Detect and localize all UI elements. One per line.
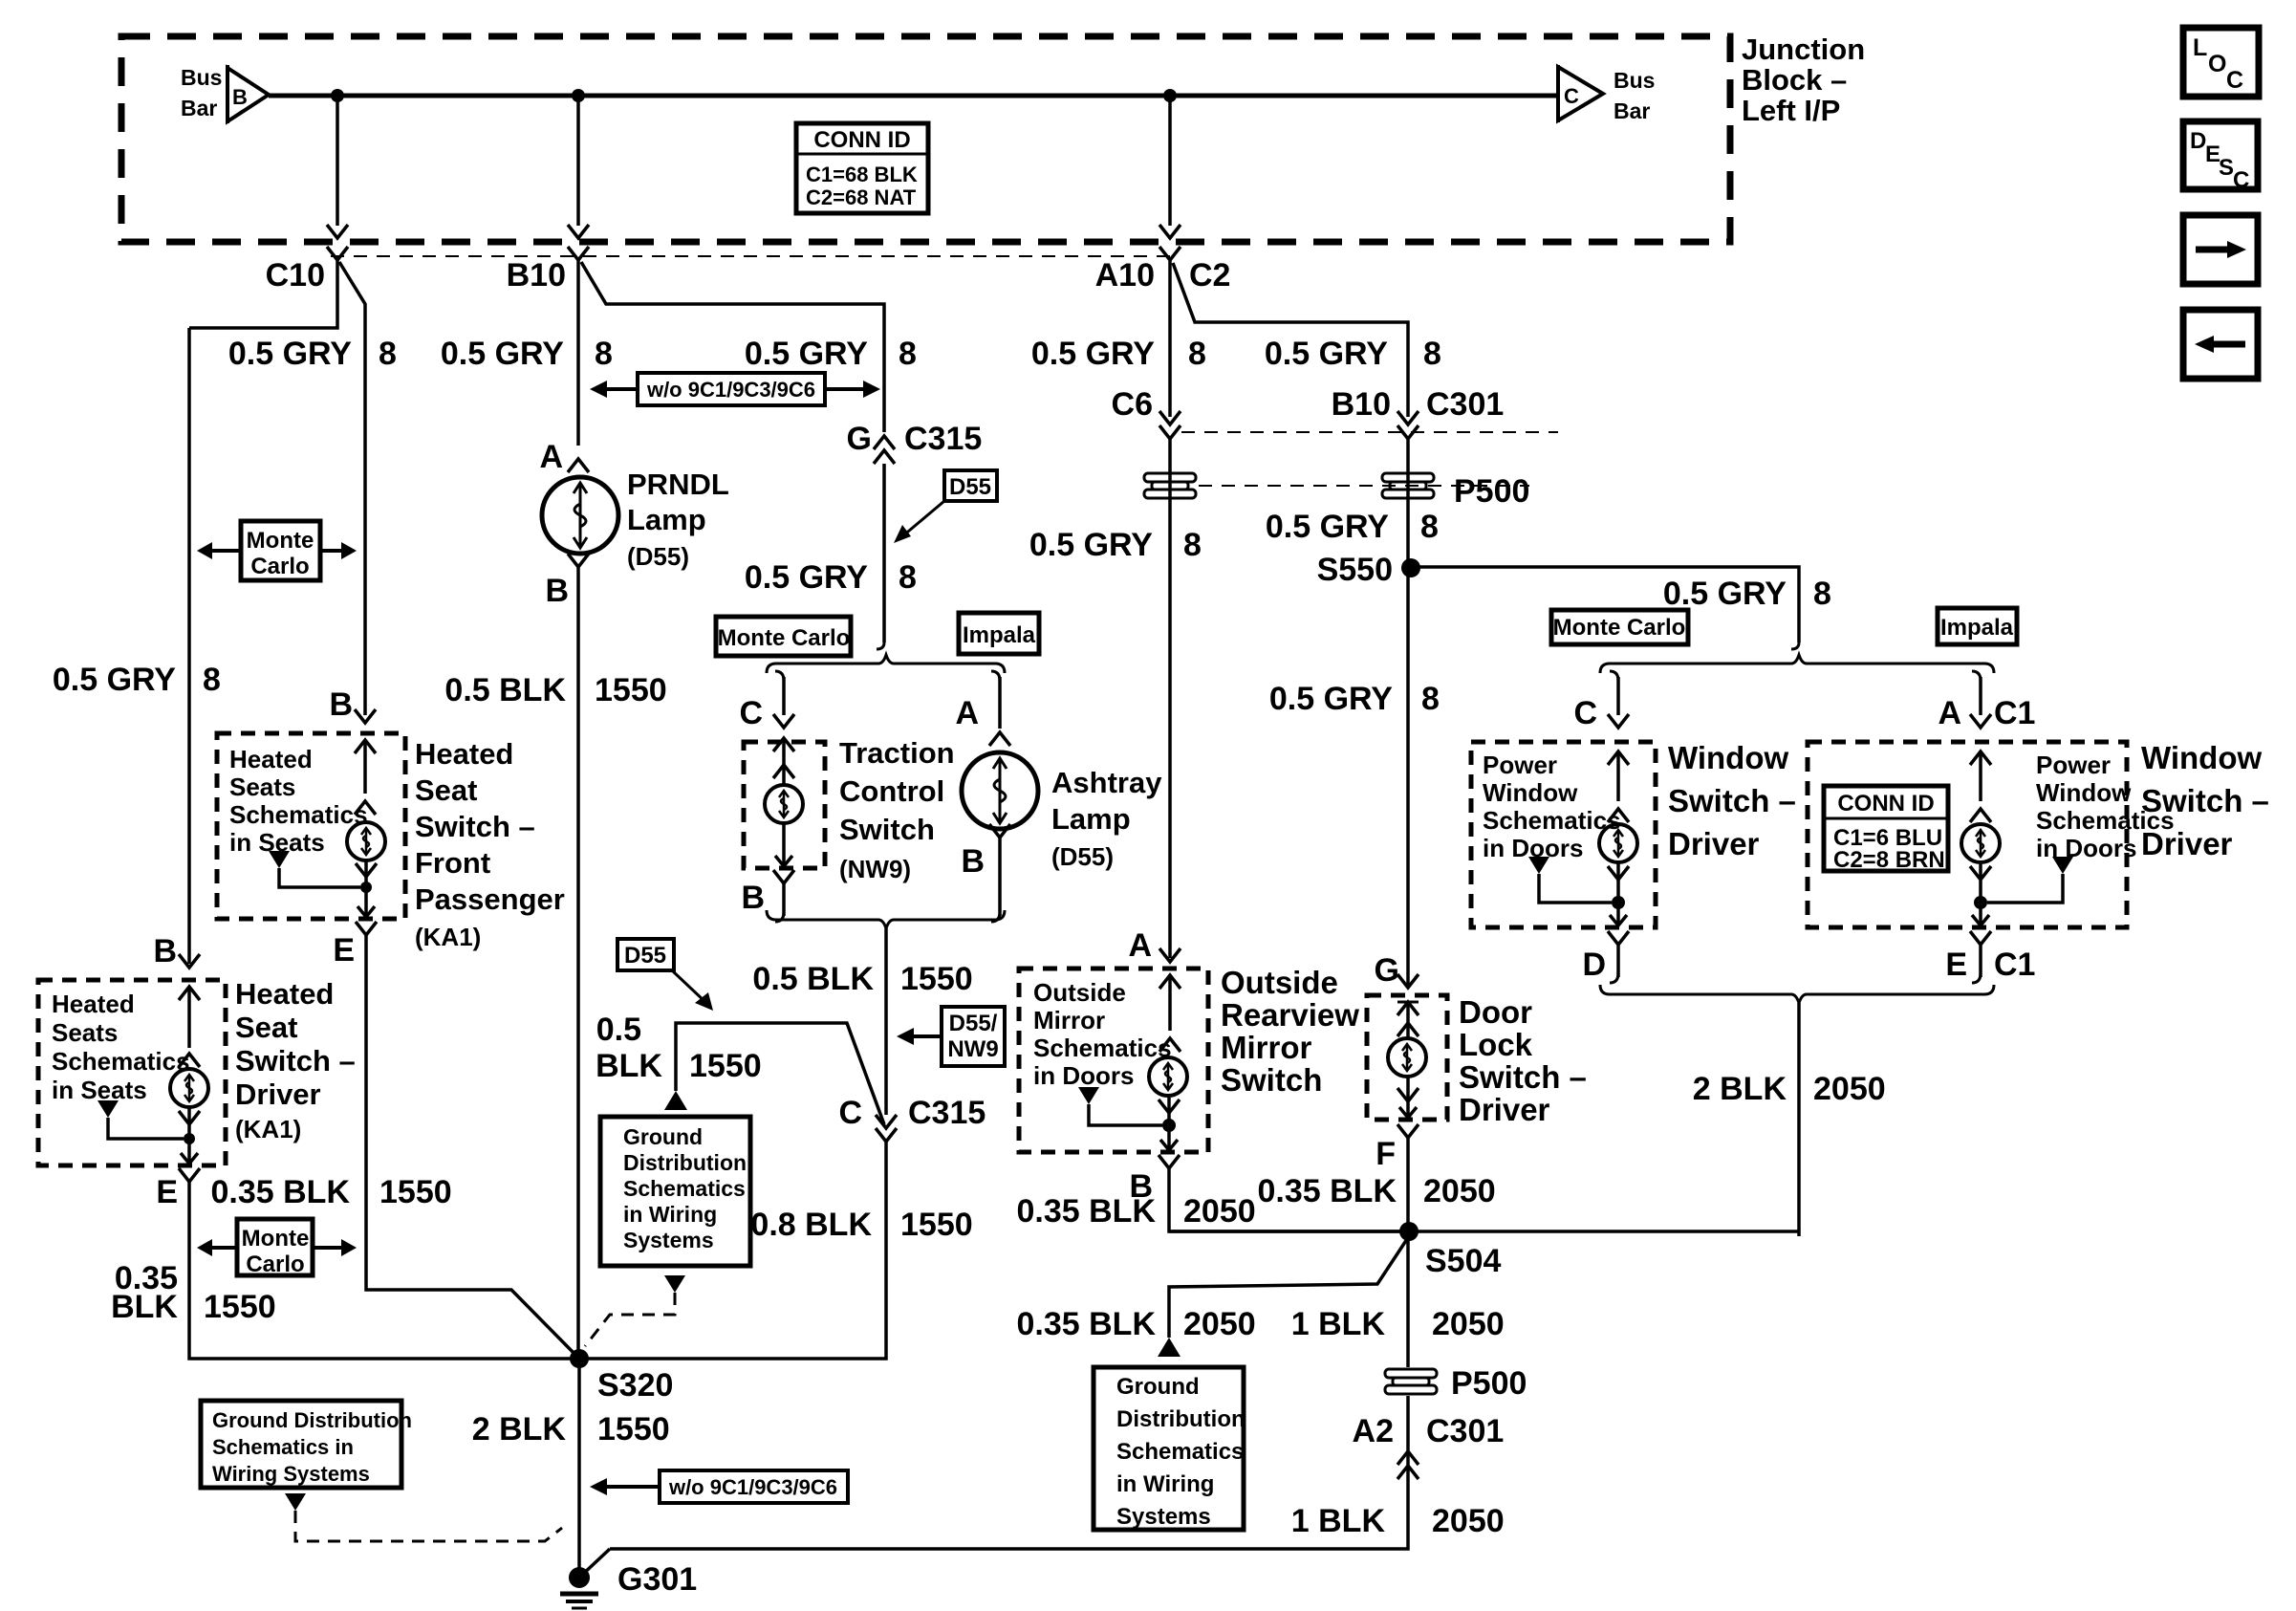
svg-text:Power: Power	[2036, 751, 2111, 779]
svg-text:BLK: BLK	[111, 1289, 178, 1325]
svg-text:0.5 GRY: 0.5 GRY	[745, 336, 868, 372]
svg-text:1 BLK: 1 BLK	[1291, 1306, 1386, 1342]
svg-text:C: C	[1564, 84, 1579, 108]
svg-text:C: C	[2226, 67, 2243, 94]
svg-text:0.35 BLK: 0.35 BLK	[1258, 1173, 1397, 1209]
alternates brace bottom (traction/ashtray)	[767, 910, 1005, 1115]
svg-text:Switch: Switch	[839, 813, 935, 846]
label 0.5 GRY 8 (P500 out)	[1266, 509, 1439, 545]
svg-text:S: S	[2219, 155, 2234, 181]
splice S550	[1317, 552, 1420, 588]
svg-text:B: B	[153, 933, 177, 969]
svg-text:in Wiring: in Wiring	[1116, 1471, 1214, 1497]
svg-text:2050: 2050	[1432, 1306, 1505, 1342]
terminal arrow (window MC top)	[1608, 751, 1629, 822]
door lock bulb	[1388, 1038, 1426, 1077]
PRNDL lamp (D55)	[542, 477, 618, 554]
traction control switch box	[744, 742, 825, 868]
connector C10	[266, 247, 348, 294]
heated seat driver title	[235, 977, 356, 1143]
svg-text:Control: Control	[839, 774, 944, 808]
ashtray lamp (D55)	[962, 752, 1038, 829]
label 0.35 BLK 1550 (driver)	[111, 1260, 276, 1325]
svg-text:Front: Front	[415, 846, 490, 880]
svg-text:Traction: Traction	[839, 736, 955, 770]
svg-text:Monte Carlo: Monte Carlo	[718, 625, 851, 651]
svg-text:C: C	[838, 1095, 862, 1131]
D55 ref box (upper)	[894, 470, 997, 543]
svg-text:Window: Window	[2141, 740, 2262, 775]
power window note (MC)	[1483, 751, 1621, 862]
svg-text:Junction: Junction	[1742, 33, 1865, 66]
svg-text:Impala: Impala	[963, 622, 1036, 648]
svg-text:1550: 1550	[900, 961, 973, 997]
svg-text:Door: Door	[1459, 994, 1532, 1030]
label 2 BLK 2050	[1693, 1071, 1886, 1107]
ref triangle + wire (window MC)	[1528, 857, 1625, 909]
svg-text:Heated: Heated	[415, 737, 513, 771]
right-arrow icon	[2183, 215, 2258, 284]
window MC bottom terminal	[1608, 862, 1629, 925]
label 0.5 GRY 8 (A10 rail)	[1031, 336, 1206, 372]
heated seats note (passenger)	[229, 745, 368, 857]
svg-text:D: D	[2190, 128, 2206, 154]
svg-text:A: A	[955, 695, 979, 731]
wire S504 down	[1406, 1231, 1410, 1367]
D55/NW9 ref box	[897, 1007, 1005, 1066]
svg-text:Switch –: Switch –	[235, 1044, 356, 1078]
ground G301	[560, 1561, 697, 1608]
svg-text:Schematics: Schematics	[52, 1047, 190, 1076]
wire S320 to G301	[577, 1359, 581, 1578]
svg-text:B10: B10	[1332, 386, 1391, 423]
svg-text:Impala: Impala	[1940, 615, 2014, 641]
heated seat driver bulb	[170, 1069, 208, 1107]
wire S504 diagonal to ground ref	[1169, 1236, 1409, 1338]
wire C2 diagonal to C301 branch	[1173, 263, 1408, 417]
svg-text:L: L	[2193, 34, 2207, 61]
stub A C1 (window Impala)	[1938, 671, 2035, 731]
wire C6 to P500	[1168, 439, 1172, 958]
svg-text:in Seats: in Seats	[52, 1076, 147, 1104]
svg-text:2 BLK: 2 BLK	[472, 1411, 567, 1448]
svg-text:1550: 1550	[597, 1411, 670, 1448]
terminal arrow (window Impala top)	[1970, 751, 1991, 822]
svg-text:Driver: Driver	[1459, 1092, 1550, 1127]
label 0.35 BLK 2050 (ground ref)	[1017, 1306, 1256, 1342]
svg-text:PRNDL: PRNDL	[627, 468, 729, 501]
svg-text:C1: C1	[1994, 695, 2035, 731]
label 0.5 GRY 8 (C315 lower)	[745, 559, 917, 596]
junction block label	[1742, 33, 1865, 127]
svg-text:8: 8	[1188, 336, 1206, 372]
label 0.35 BLK 2050 (F wire)	[1258, 1173, 1496, 1209]
svg-text:2 BLK: 2 BLK	[1693, 1071, 1787, 1107]
dashed ref to G301	[295, 1511, 562, 1541]
svg-text:A: A	[539, 439, 563, 475]
svg-text:S320: S320	[597, 1367, 673, 1404]
pass-through P500 left	[1144, 473, 1196, 482]
svg-text:Wiring Systems: Wiring Systems	[212, 1462, 370, 1486]
impala tag (ashtray)	[959, 613, 1039, 654]
w/o 9C1/9C3/9C6 box (bottom)	[590, 1470, 848, 1503]
svg-text:(D55): (D55)	[627, 542, 689, 571]
heated seat driver dashed box	[38, 980, 226, 1165]
svg-text:Heated: Heated	[235, 977, 334, 1011]
connector A10 C2	[1095, 247, 1231, 294]
svg-text:D55: D55	[624, 943, 666, 969]
window Impala bottom terminal	[1970, 862, 1991, 925]
svg-text:D55: D55	[949, 474, 991, 500]
svg-text:8: 8	[203, 662, 221, 698]
svg-text:S504: S504	[1425, 1243, 1501, 1279]
svg-text:Driver: Driver	[1668, 826, 1760, 861]
svg-text:Window: Window	[2036, 778, 2132, 807]
svg-text:Monte Carlo: Monte Carlo	[1553, 615, 1686, 641]
bus bar B	[181, 65, 269, 123]
svg-text:2050: 2050	[1813, 1071, 1886, 1107]
thin dashed line (P500)	[1199, 485, 1529, 487]
svg-text:Schematics: Schematics	[1116, 1439, 1244, 1465]
wire PRNDL rail long	[576, 567, 580, 1359]
svg-text:C2=8 BRN: C2=8 BRN	[1833, 847, 1945, 873]
svg-text:Window: Window	[1668, 740, 1788, 775]
pin G (door lock)	[1375, 952, 1419, 989]
svg-text:Mirror: Mirror	[1033, 1006, 1105, 1034]
outside rearview mirror switch title	[1221, 965, 1359, 1098]
svg-text:1550: 1550	[900, 1207, 973, 1243]
svg-text:P500: P500	[1454, 473, 1529, 510]
mirror bottom terminal	[1159, 1096, 1180, 1150]
svg-text:Lamp: Lamp	[1051, 802, 1131, 836]
pin D (window MC)	[1582, 931, 1629, 983]
wire P500 to A2	[610, 1396, 1408, 1549]
svg-text:0.5 BLK: 0.5 BLK	[752, 961, 874, 997]
connector B10 C301	[1332, 386, 1505, 439]
svg-text:w/o 9C1/9C3/9C6: w/o 9C1/9C3/9C6	[646, 378, 815, 402]
svg-text:0.5: 0.5	[596, 1012, 641, 1048]
svg-text:G: G	[1375, 952, 1399, 989]
svg-text:(NW9): (NW9)	[839, 855, 911, 883]
ground distribution schematics box (right)	[1094, 1367, 1245, 1530]
svg-text:P500: P500	[1451, 1365, 1527, 1402]
junction block dashed outline	[121, 36, 1730, 242]
svg-text:0.5 BLK: 0.5 BLK	[444, 672, 566, 708]
ref triangle (bottom left)	[285, 1493, 306, 1511]
D55 ref box (lower)	[617, 939, 713, 1011]
wire ground ref (0.5 BLK 1550)	[664, 1023, 884, 1124]
wire 0.8 BLK to S320	[582, 1142, 886, 1359]
svg-text:CONN ID: CONN ID	[1837, 791, 1934, 816]
svg-text:A2: A2	[1353, 1413, 1394, 1449]
ground distribution schematics box (middle)	[600, 1117, 750, 1266]
svg-text:Seats: Seats	[52, 1018, 118, 1047]
svg-text:Left I/P: Left I/P	[1742, 94, 1840, 127]
wire drop to B10	[568, 96, 589, 238]
label 1 BLK 2050 (upper)	[1291, 1306, 1505, 1342]
wire B10 diagonal to C315 branch	[581, 262, 884, 432]
PRNDL lamp label	[627, 468, 729, 571]
svg-text:Lock: Lock	[1459, 1027, 1533, 1062]
power window schematics box (MC)	[1471, 742, 1656, 927]
svg-text:2050: 2050	[1423, 1173, 1496, 1209]
svg-text:Switch: Switch	[1221, 1062, 1322, 1098]
bus bar C	[1558, 65, 1655, 123]
svg-text:A: A	[1938, 695, 1961, 731]
monte carlo variant box (lower left)	[197, 1219, 357, 1277]
svg-text:Switch –: Switch –	[1668, 783, 1796, 818]
window switch driver title (MC)	[1668, 740, 1796, 861]
ref triangle (ground ref right)	[1158, 1338, 1180, 1357]
wire C315 branch to brace	[882, 464, 886, 642]
svg-text:C2=68 NAT: C2=68 NAT	[806, 185, 917, 209]
stub A (ashtray)	[955, 671, 1010, 746]
svg-text:G301: G301	[617, 1561, 697, 1598]
door lock dashed box	[1367, 995, 1447, 1120]
svg-text:Bus: Bus	[181, 65, 222, 90]
svg-text:8: 8	[1813, 576, 1831, 612]
svg-text:0.35 BLK: 0.35 BLK	[1017, 1193, 1157, 1230]
svg-text:Ground Distribution: Ground Distribution	[212, 1408, 412, 1432]
pin B (heated seat passenger)	[329, 686, 376, 723]
svg-text:C1=68 BLK: C1=68 BLK	[806, 163, 918, 186]
svg-text:8: 8	[1421, 681, 1440, 717]
svg-text:Carlo: Carlo	[250, 554, 309, 579]
svg-text:E: E	[1945, 947, 1967, 983]
left-arrow icon	[2183, 310, 2258, 379]
svg-text:1550: 1550	[595, 672, 667, 708]
label 0.5 GRY 8 (mirror rail)	[1029, 527, 1202, 563]
outside mirror dashed box	[1019, 969, 1208, 1152]
DESC icon	[2183, 121, 2258, 193]
wire E passenger to S320	[366, 935, 579, 1359]
svg-text:Heated: Heated	[52, 990, 135, 1018]
stub C (traction)	[739, 671, 794, 731]
svg-text:8: 8	[1183, 527, 1202, 563]
svg-text:C10: C10	[266, 257, 325, 294]
svg-text:Driver: Driver	[2141, 826, 2233, 861]
svg-text:0.5 GRY: 0.5 GRY	[441, 336, 564, 372]
alternates brace bottom (window)	[1600, 985, 1994, 1236]
label 2 BLK 1550	[472, 1411, 670, 1448]
heated seat passenger dashed box	[217, 733, 405, 919]
power window note (Impala)	[2036, 751, 2175, 862]
svg-text:0.8 BLK: 0.8 BLK	[750, 1207, 872, 1243]
ref triangle + wire (mirror)	[1078, 1087, 1176, 1132]
svg-text:Heated: Heated	[229, 745, 313, 773]
label 0.5 GRY 8 (C301 branch)	[1265, 336, 1441, 372]
svg-text:NW9: NW9	[947, 1036, 998, 1062]
connector G C315	[847, 421, 983, 464]
wire C301 branch to S550	[1406, 439, 1410, 985]
wire B10 to PRNDL rail	[576, 260, 580, 446]
window switch driver title (Impala)	[2141, 740, 2269, 861]
w/o 9C1/9C3/9C6 box (top)	[590, 373, 880, 405]
wire E driver down	[189, 1182, 574, 1359]
conn id table (window)	[1824, 786, 1948, 873]
CONN ID table (junction block)	[796, 123, 928, 213]
svg-text:0.5 GRY: 0.5 GRY	[1266, 509, 1389, 545]
svg-text:C6: C6	[1112, 386, 1153, 423]
stub C (window MC)	[1573, 671, 1629, 731]
label 0.35 BLK 2050 (mirror B)	[1017, 1193, 1256, 1230]
svg-text:B: B	[961, 843, 985, 880]
monte carlo variant box (upper left)	[197, 521, 357, 580]
heated seat passenger bulb	[347, 822, 385, 860]
svg-text:Ground: Ground	[623, 1124, 703, 1149]
bus bar wire	[269, 94, 1558, 98]
svg-text:Mirror: Mirror	[1221, 1030, 1312, 1065]
svg-text:O: O	[2208, 51, 2226, 77]
label 0.5 BLK 1550 (ref)	[596, 1012, 762, 1084]
label 1 BLK 2050 (lower)	[1291, 1503, 1505, 1539]
wire C10 diagonal to passenger rail	[339, 262, 365, 337]
wire S550 to window brace	[1411, 567, 1799, 642]
svg-text:Switch –: Switch –	[415, 810, 535, 843]
svg-text:(D55): (D55)	[1051, 842, 1114, 871]
svg-text:CONN ID: CONN ID	[813, 127, 910, 153]
svg-text:Lamp: Lamp	[627, 503, 706, 536]
svg-text:in Doors: in Doors	[2036, 834, 2136, 862]
door lock switch title	[1459, 994, 1587, 1127]
svg-text:8: 8	[1420, 509, 1439, 545]
svg-text:1550: 1550	[379, 1174, 452, 1210]
alternates brace top (traction/ashtray)	[767, 642, 1005, 673]
label 0.8 BLK 1550	[750, 1207, 972, 1243]
svg-text:C315: C315	[904, 421, 982, 457]
svg-text:Seat: Seat	[235, 1011, 297, 1044]
thin dashed connector line	[331, 255, 1178, 257]
svg-text:w/o 9C1/9C3/9C6: w/o 9C1/9C3/9C6	[668, 1475, 837, 1499]
terminal arrow (driver top)	[179, 987, 200, 1067]
svg-text:Outside: Outside	[1221, 965, 1338, 1000]
svg-text:Carlo: Carlo	[246, 1252, 304, 1277]
svg-text:E: E	[333, 932, 355, 969]
svg-text:8: 8	[595, 336, 613, 372]
svg-text:B: B	[232, 85, 248, 109]
connector A2 C301	[1353, 1413, 1505, 1479]
connector C6	[1112, 386, 1180, 439]
svg-text:0.5 GRY: 0.5 GRY	[745, 559, 868, 596]
svg-text:B: B	[741, 880, 765, 916]
svg-text:Schematics in: Schematics in	[212, 1435, 354, 1459]
pin E C1 (window Impala)	[1945, 931, 2035, 983]
LOC icon	[2183, 28, 2259, 97]
pin B (ashtray)	[961, 824, 1010, 922]
mirror bulb	[1149, 1057, 1187, 1096]
wire F to S504	[1406, 1138, 1410, 1231]
node on bus at B10	[572, 89, 585, 102]
svg-text:Systems: Systems	[623, 1228, 714, 1252]
pin A (PRNDL)	[539, 439, 589, 475]
svg-text:Rearview: Rearview	[1221, 997, 1359, 1033]
terminal arrow (door lock top)	[1397, 1002, 1419, 1038]
alternates brace top (window)	[1600, 642, 1994, 673]
node on bus at C10	[331, 89, 344, 102]
svg-text:1 BLK: 1 BLK	[1291, 1503, 1386, 1539]
svg-text:D: D	[1582, 947, 1606, 983]
ref triangle + wire (passenger)	[269, 851, 372, 893]
svg-text:Distribution: Distribution	[623, 1150, 747, 1175]
svg-text:0.5 GRY: 0.5 GRY	[1265, 336, 1388, 372]
svg-text:0.5 GRY: 0.5 GRY	[53, 662, 176, 698]
label 0.5 GRY 8 (S550 out)	[1663, 576, 1831, 612]
ground distribution schematics box (bottom left)	[201, 1401, 412, 1488]
svg-text:0.35 BLK: 0.35 BLK	[211, 1174, 351, 1210]
traction control title	[839, 736, 955, 883]
left rail upper	[187, 328, 191, 964]
heated seats note (driver)	[52, 990, 190, 1104]
svg-text:Block –: Block –	[1742, 63, 1847, 97]
ref triangle + wire (driver)	[97, 1100, 195, 1144]
driver bottom terminal	[179, 1108, 200, 1164]
svg-text:Seat: Seat	[415, 773, 477, 807]
svg-text:8: 8	[379, 336, 397, 372]
svg-text:Monte: Monte	[247, 528, 314, 554]
pin B (mirror)	[1129, 1155, 1180, 1205]
svg-text:Schematics: Schematics	[1033, 1034, 1172, 1062]
svg-text:Switch –: Switch –	[2141, 783, 2269, 818]
svg-text:Power: Power	[1483, 751, 1557, 779]
door lock bottom terminal	[1397, 1077, 1419, 1118]
svg-text:2050: 2050	[1183, 1193, 1256, 1230]
terminal arrow (passenger top)	[355, 740, 376, 815]
ashtray lamp label	[1051, 766, 1162, 871]
svg-text:F: F	[1375, 1136, 1396, 1172]
svg-text:0.5 GRY: 0.5 GRY	[1031, 336, 1155, 372]
label 0.5 GRY 8 (door lock rail)	[1269, 681, 1440, 717]
svg-text:Schematics: Schematics	[623, 1176, 746, 1201]
svg-text:8: 8	[899, 559, 917, 596]
svg-text:Distribution: Distribution	[1116, 1406, 1245, 1432]
svg-text:Bar: Bar	[181, 96, 217, 120]
terminal arrow (mirror top)	[1159, 975, 1180, 1052]
power window schematics box (Impala)	[1808, 742, 2127, 927]
pin A (mirror switch)	[1128, 927, 1180, 964]
passenger bottom terminal	[356, 861, 377, 917]
thin dashed line (C301)	[1181, 431, 1558, 433]
svg-text:in Wiring: in Wiring	[623, 1202, 717, 1227]
svg-text:2050: 2050	[1183, 1306, 1256, 1342]
svg-text:Outside: Outside	[1033, 978, 1126, 1007]
impala tag (window)	[1938, 608, 2017, 644]
svg-text:8: 8	[899, 336, 917, 372]
svg-text:D55/: D55/	[949, 1011, 998, 1036]
svg-text:C: C	[2233, 167, 2249, 193]
svg-text:C: C	[1573, 695, 1597, 731]
heated seat passenger title	[415, 737, 565, 951]
wire drop to A10	[1159, 96, 1180, 238]
label 0.5 GRY 8 (C315 branch)	[745, 336, 917, 372]
monte carlo tag (traction)	[716, 617, 851, 656]
traction bottom terminal	[775, 823, 792, 866]
svg-text:0.5 GRY: 0.5 GRY	[228, 336, 352, 372]
svg-text:(KA1): (KA1)	[235, 1115, 301, 1143]
svg-text:Window: Window	[1483, 778, 1578, 807]
svg-text:0.5 GRY: 0.5 GRY	[1663, 576, 1787, 612]
label 0.5 BLK 1550 (brace out)	[752, 961, 972, 997]
svg-text:Ground: Ground	[1116, 1374, 1200, 1400]
pass-through P500 right	[1382, 473, 1529, 510]
wire C10 to left rail	[189, 260, 337, 328]
pass-through P500 (bottom)	[1385, 1365, 1527, 1402]
pin F (door lock)	[1375, 1124, 1419, 1172]
window Impala bulb	[1961, 824, 2000, 862]
ref triangle + wire (window Impala)	[1974, 857, 2073, 909]
svg-text:Monte: Monte	[242, 1226, 310, 1252]
terminal arrow (traction top)	[773, 738, 794, 784]
svg-text:A10: A10	[1095, 257, 1155, 294]
